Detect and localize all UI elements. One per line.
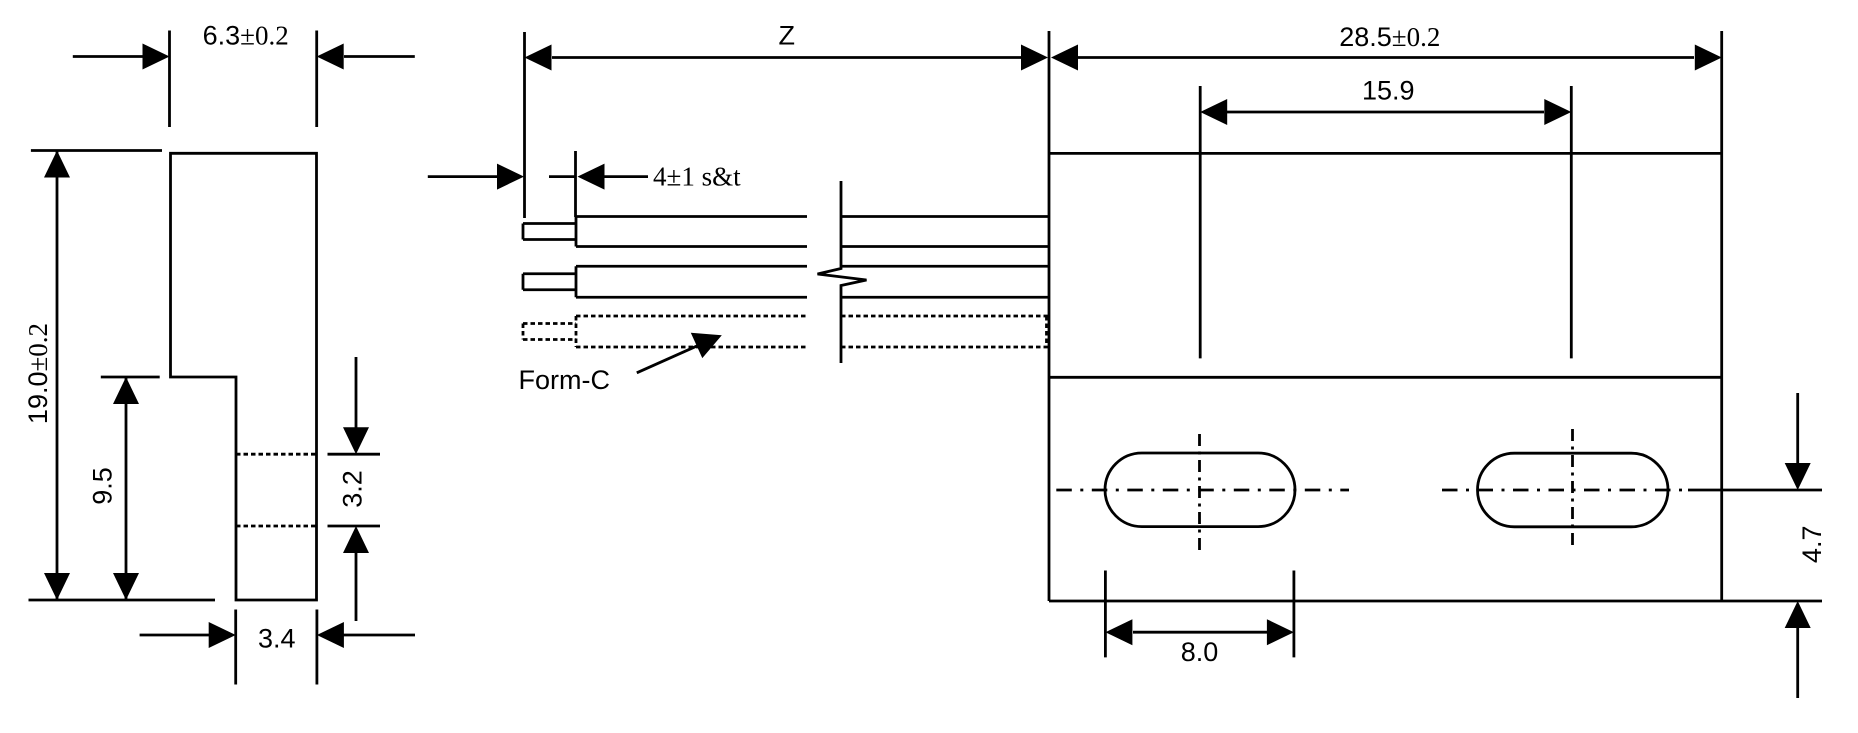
- svg-text:Form-C: Form-C: [519, 365, 610, 395]
- svg-text:3.4: 3.4: [258, 624, 296, 654]
- svg-text:28.5±0.2: 28.5±0.2: [1339, 22, 1440, 52]
- svg-text:4.7: 4.7: [1797, 526, 1827, 564]
- svg-text:9.5: 9.5: [87, 467, 117, 505]
- svg-text:15.9: 15.9: [1362, 76, 1415, 106]
- svg-text:6.3±0.2: 6.3±0.2: [203, 20, 289, 50]
- svg-text:4±1 s&t: 4±1 s&t: [653, 162, 741, 192]
- svg-text:3.2: 3.2: [337, 470, 367, 508]
- svg-text:Z: Z: [779, 21, 796, 51]
- svg-text:19.0±0.2: 19.0±0.2: [23, 323, 53, 424]
- svg-text:8.0: 8.0: [1181, 637, 1219, 667]
